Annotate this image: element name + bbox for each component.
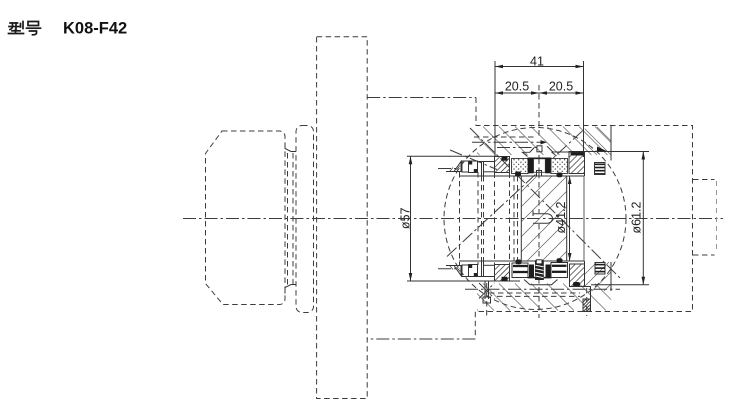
gland right hatch top xyxy=(585,127,611,155)
stud bottom-left xyxy=(484,282,486,300)
set screw top (dark) xyxy=(502,157,508,161)
o-ring dark top-left xyxy=(515,172,521,177)
hidden sleeve verticals xyxy=(459,172,461,265)
o-ring dark bottom-left xyxy=(516,260,522,265)
coil spring bottom-right xyxy=(595,263,605,275)
hidden drain lines xyxy=(489,292,580,294)
gland right hatch bottom xyxy=(585,262,611,291)
retainer solid verticals xyxy=(520,176,522,261)
dimension 20.5 right xyxy=(539,91,547,95)
circlip wedge bottom-left xyxy=(446,266,461,276)
hidden shaft step verticals mid xyxy=(481,176,483,261)
assembly vertical center line xyxy=(538,85,540,136)
gland flange bottom steps xyxy=(570,287,591,300)
o-ring dark bottom-right xyxy=(557,258,563,263)
gland insert bottom (hatched) xyxy=(570,264,585,287)
circlip wedge top-left xyxy=(446,162,461,172)
gland gasket dark band top xyxy=(571,151,584,156)
set screw leader (diag dash-dot) xyxy=(450,150,497,170)
drive pin tick below faces xyxy=(537,171,542,177)
right stud hidden centerline xyxy=(586,288,588,316)
label 型号 (model) xyxy=(9,22,41,35)
drive collar bottom (hatched) xyxy=(495,265,510,282)
clip groove axis top xyxy=(438,168,460,170)
center line xyxy=(183,218,723,220)
elastomer bellows top-left (stippled) xyxy=(512,159,529,174)
dimension 20.5 left xyxy=(495,92,584,94)
spacer ring top xyxy=(462,161,469,172)
dimension phi61.2 xyxy=(642,152,644,285)
flush port boss xyxy=(537,146,542,152)
packing ring top xyxy=(469,161,478,173)
aux dash-dot xyxy=(497,147,538,149)
spring seat notch white xyxy=(536,260,542,264)
clip groove axis bottom xyxy=(438,268,460,270)
spacer ring bottom xyxy=(462,265,469,277)
packing ring bottom xyxy=(469,265,478,277)
bearing plate (dashed rounded rect) xyxy=(296,126,314,313)
center dashed line through gap xyxy=(538,159,540,177)
seal faces bottom (dark bars) xyxy=(528,277,552,279)
gland face vertical top xyxy=(584,152,586,177)
o-ring dark top-right xyxy=(557,173,563,178)
set screw bottom (dark) xyxy=(502,277,508,281)
center drive notch xyxy=(533,214,552,223)
hidden collar verticals mid xyxy=(494,173,496,265)
shaft sleeve bottom line xyxy=(459,260,585,262)
spring left bottom (stripes) xyxy=(512,263,528,278)
shaft step lines bottom xyxy=(481,261,483,277)
drive lug trapezoid bottom xyxy=(524,280,558,285)
stud axis line xyxy=(465,288,620,290)
svg-text:K08-F42: K08-F42 xyxy=(63,20,127,38)
coil spring top-right xyxy=(595,164,606,174)
extension line right xyxy=(583,61,585,157)
port centerline xyxy=(472,141,543,143)
gland gasket dark bottom xyxy=(573,282,580,287)
shaft neck step top xyxy=(285,143,296,152)
svg-text:ø41.2: ø41.2 xyxy=(554,201,568,233)
shaft step lines top xyxy=(481,162,483,177)
svg-text:20.5: 20.5 xyxy=(549,80,573,94)
gland outer vertical top xyxy=(610,126,612,161)
diagonal centerlines xyxy=(470,128,622,280)
svg-text:ø57: ø57 xyxy=(399,207,413,229)
housing section hatch upper band xyxy=(477,127,611,156)
seal faces top (dark bars) xyxy=(528,157,552,159)
shaft end stub (far right, dashed) xyxy=(693,179,715,181)
gland outer vertical bottom xyxy=(610,262,612,291)
box hidden line xyxy=(474,136,535,138)
shaft hidden lines between cover and plate xyxy=(287,153,289,285)
housing bore circle (dashed) xyxy=(444,128,626,310)
stud cross centerlines xyxy=(479,283,495,299)
svg-text:41: 41 xyxy=(530,55,544,69)
shaft sleeve top line xyxy=(459,175,585,177)
dimension 41 xyxy=(495,66,584,68)
sleeve/shaft hatch middle xyxy=(522,177,568,261)
motor end cover (dashed, chamfered-left, rounded-right) xyxy=(206,131,286,305)
extension line left xyxy=(494,61,496,157)
elastomer bellows top-right (stippled) xyxy=(551,159,568,174)
pump housing phantom outline xyxy=(367,97,476,99)
drive collar top (hatched) xyxy=(495,157,510,173)
svg-text:20.5: 20.5 xyxy=(505,80,529,94)
dimension phi41.2 xyxy=(569,176,571,261)
shaft neck step bottom xyxy=(285,285,296,294)
svg-text:ø61.2: ø61.2 xyxy=(630,201,644,233)
center coil spring bottom (dark block) xyxy=(535,260,544,280)
leader arrow on gland top line xyxy=(597,147,607,152)
gland stud bottom-right (hatched bar) xyxy=(583,299,591,312)
dimension phi57 xyxy=(410,156,412,281)
gland face vertical bottom xyxy=(584,261,586,287)
mounting flange (large dashed rect) xyxy=(317,37,368,399)
housing section hatch lower band xyxy=(477,284,611,311)
spring right bottom (stripes) xyxy=(551,263,568,278)
sleeve edge short lines xyxy=(484,171,495,173)
gland bore edge mid xyxy=(583,176,585,261)
gland insert top (hatched) xyxy=(569,152,585,174)
box face chamfers xyxy=(523,148,535,157)
